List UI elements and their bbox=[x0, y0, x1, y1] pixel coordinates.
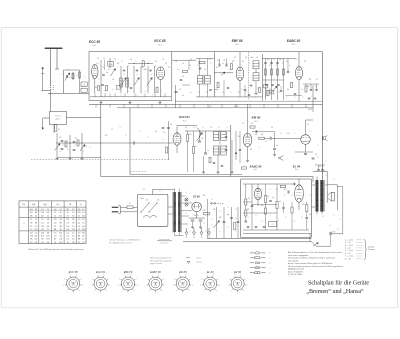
svg-text:88: 88 bbox=[78, 236, 80, 238]
svg-text:6,3: 6,3 bbox=[209, 106, 211, 108]
svg-text:240: 240 bbox=[83, 85, 86, 87]
svg-text:Werte mit * bei UKW gemessen,: Werte mit * bei UKW gemessen, ohne Sende… bbox=[28, 248, 84, 251]
svg-text:12: 12 bbox=[234, 57, 236, 59]
svg-text:8: 8 bbox=[281, 133, 282, 135]
svg-text:5 — 2 x 15: 5 — 2 x 15 bbox=[345, 250, 353, 252]
svg-text:0,3: 0,3 bbox=[54, 232, 57, 234]
svg-text:1n: 1n bbox=[63, 145, 65, 147]
svg-text:4: 4 bbox=[310, 131, 311, 133]
svg-text:2: 2 bbox=[253, 187, 254, 189]
svg-text:6,8: 6,8 bbox=[35, 239, 38, 241]
svg-text:0,1: 0,1 bbox=[58, 129, 60, 131]
svg-text:170: 170 bbox=[41, 229, 44, 231]
svg-text:215: 215 bbox=[59, 232, 62, 234]
svg-text:ECC 85: ECC 85 bbox=[89, 40, 100, 44]
svg-text:2: 2 bbox=[215, 92, 216, 94]
svg-text:EL 84: EL 84 bbox=[207, 270, 214, 274]
svg-text:8: 8 bbox=[262, 189, 263, 191]
svg-text:(A) Abgleichpunkte: (A) Abgleichpunkte bbox=[288, 268, 304, 271]
svg-text:0: 0 bbox=[160, 104, 161, 106]
svg-text:45: 45 bbox=[54, 239, 56, 241]
svg-text:9: 9 bbox=[290, 65, 291, 67]
svg-text:3: 3 bbox=[262, 221, 263, 223]
svg-text:7,5: 7,5 bbox=[72, 216, 75, 218]
svg-text:(B) 2. ZF 460 kHz: (B) 2. ZF 460 kHz bbox=[288, 271, 303, 273]
svg-text:7,5: 7,5 bbox=[66, 216, 69, 218]
svg-text:8: 8 bbox=[274, 59, 275, 61]
svg-text:8: 8 bbox=[77, 75, 78, 77]
svg-text:4: 4 bbox=[137, 74, 138, 76]
svg-text:7,5: 7,5 bbox=[66, 222, 69, 224]
svg-text:50: 50 bbox=[315, 86, 317, 88]
svg-text:1: 1 bbox=[247, 92, 248, 94]
svg-text:45: 45 bbox=[60, 212, 62, 214]
svg-text:5: 5 bbox=[340, 219, 341, 221]
svg-text:Schalterstellung: U = UKW-Betr: Schalterstellung: U = UKW-Betrieb bbox=[109, 239, 141, 242]
svg-text:2,1: 2,1 bbox=[72, 239, 75, 241]
svg-text:1,3: 1,3 bbox=[54, 236, 57, 238]
svg-text:1,3: 1,3 bbox=[54, 222, 57, 224]
svg-text:12: 12 bbox=[265, 141, 267, 143]
svg-text:5: 5 bbox=[317, 216, 318, 218]
svg-text:50: 50 bbox=[170, 124, 172, 126]
svg-text:88: 88 bbox=[78, 239, 80, 241]
svg-text:98: 98 bbox=[30, 239, 32, 241]
svg-text:12: 12 bbox=[82, 239, 84, 241]
svg-text:2,1: 2,1 bbox=[72, 209, 75, 211]
svg-text:88: 88 bbox=[60, 222, 62, 224]
svg-text:270: 270 bbox=[203, 210, 206, 212]
svg-text:12: 12 bbox=[35, 219, 37, 221]
svg-text:1n: 1n bbox=[301, 89, 303, 91]
svg-text:88: 88 bbox=[67, 209, 69, 211]
svg-text:170: 170 bbox=[302, 204, 305, 206]
svg-text:Rö 5: Rö 5 bbox=[295, 169, 298, 171]
svg-text:5: 5 bbox=[259, 147, 260, 149]
svg-text:2n: 2n bbox=[163, 132, 165, 134]
svg-text:3: 3 bbox=[228, 207, 229, 209]
svg-text:0,1: 0,1 bbox=[271, 224, 273, 226]
svg-text:215: 215 bbox=[77, 212, 80, 214]
svg-text:2: 2 bbox=[62, 74, 63, 76]
svg-text:2: 2 bbox=[278, 221, 279, 223]
svg-text:60: 60 bbox=[225, 133, 227, 135]
svg-text:6: 6 bbox=[220, 231, 221, 233]
svg-text:4: 4 bbox=[129, 91, 130, 93]
svg-text:2,1: 2,1 bbox=[41, 222, 44, 224]
svg-text:2: 2 bbox=[121, 95, 122, 97]
svg-text:5k: 5k bbox=[217, 60, 219, 62]
svg-text:88: 88 bbox=[82, 232, 84, 234]
svg-text:3: 3 bbox=[190, 231, 191, 233]
svg-text:6,8: 6,8 bbox=[30, 242, 33, 244]
svg-text:4: 4 bbox=[294, 221, 295, 223]
svg-text:4 — 22: 4 — 22 bbox=[345, 248, 351, 250]
svg-text:98: 98 bbox=[47, 232, 49, 234]
svg-text:150: 150 bbox=[203, 195, 206, 197]
svg-text:0,1: 0,1 bbox=[242, 123, 244, 125]
svg-text:4700: 4700 bbox=[332, 232, 336, 234]
svg-text:0,5: 0,5 bbox=[179, 89, 181, 91]
svg-text:1n: 1n bbox=[207, 150, 209, 152]
svg-text:2: 2 bbox=[263, 92, 264, 94]
svg-text:Rö 1: Rö 1 bbox=[93, 45, 97, 47]
svg-text:12: 12 bbox=[269, 65, 271, 67]
svg-text:7,5: 7,5 bbox=[66, 239, 69, 241]
svg-text:Rö 4: Rö 4 bbox=[292, 44, 296, 46]
svg-text:4: 4 bbox=[279, 92, 280, 94]
svg-text:7 — 2 x 12: 7 — 2 x 12 bbox=[345, 256, 353, 258]
svg-text:2: 2 bbox=[204, 223, 205, 225]
svg-text:5k: 5k bbox=[182, 63, 184, 65]
svg-text:0,1: 0,1 bbox=[279, 201, 281, 203]
svg-text:5: 5 bbox=[264, 65, 265, 67]
svg-text:170: 170 bbox=[46, 236, 49, 238]
svg-text:3: 3 bbox=[227, 127, 228, 129]
svg-text:ECC 85: ECC 85 bbox=[69, 270, 79, 274]
svg-text:2: 2 bbox=[326, 161, 327, 163]
svg-text:12: 12 bbox=[54, 242, 56, 244]
svg-text:U = 220 V~: U = 220 V~ bbox=[160, 242, 169, 244]
svg-text:170: 170 bbox=[72, 229, 75, 231]
svg-text:0,8: 0,8 bbox=[30, 212, 33, 214]
svg-text:EZ 80: EZ 80 bbox=[234, 270, 241, 274]
svg-text:2: 2 bbox=[153, 95, 154, 97]
svg-text:215: 215 bbox=[41, 212, 44, 214]
svg-text:1n: 1n bbox=[190, 92, 192, 94]
svg-text:45: 45 bbox=[67, 212, 69, 214]
svg-text:3: 3 bbox=[303, 97, 304, 99]
svg-text:Alle Widerstandswerte in Ohm,: Alle Widerstandswerte in Ohm, alle Konde… bbox=[288, 251, 342, 254]
svg-text:*1,4: *1,4 bbox=[96, 63, 99, 65]
svg-text:5: 5 bbox=[310, 195, 311, 197]
svg-text:12: 12 bbox=[60, 236, 62, 238]
svg-text:0,3: 0,3 bbox=[41, 242, 44, 244]
svg-text:0,8: 0,8 bbox=[47, 219, 50, 221]
svg-text:170: 170 bbox=[30, 236, 33, 238]
svg-text:1,3: 1,3 bbox=[35, 232, 38, 234]
svg-text:30: 30 bbox=[97, 58, 99, 60]
svg-text:12: 12 bbox=[47, 222, 49, 224]
svg-text:8: 8 bbox=[302, 217, 303, 219]
svg-text:8: 8 bbox=[113, 89, 114, 91]
svg-text:audion: audion bbox=[213, 89, 218, 91]
svg-text:4: 4 bbox=[161, 91, 162, 93]
svg-text:9: 9 bbox=[93, 79, 94, 81]
svg-text:6: 6 bbox=[334, 179, 335, 181]
svg-text:15: 15 bbox=[69, 77, 71, 79]
svg-text:30: 30 bbox=[287, 89, 289, 91]
svg-text:6,8: 6,8 bbox=[35, 236, 38, 238]
svg-text:12: 12 bbox=[78, 216, 80, 218]
svg-text:6,8: 6,8 bbox=[35, 242, 38, 244]
svg-text:2,1: 2,1 bbox=[66, 232, 69, 234]
svg-text:b: b bbox=[270, 272, 271, 274]
svg-text:Chassis: Chassis bbox=[196, 261, 202, 263]
svg-text:2: 2 bbox=[212, 225, 213, 227]
svg-text:60: 60 bbox=[225, 146, 227, 148]
svg-text:2: 2 bbox=[137, 95, 138, 97]
svg-text:30: 30 bbox=[267, 59, 269, 61]
svg-text:1: 1 bbox=[99, 79, 100, 81]
svg-text:2,1: 2,1 bbox=[72, 226, 75, 228]
svg-text:8: 8 bbox=[199, 92, 200, 94]
svg-text:2n: 2n bbox=[67, 149, 69, 151]
svg-text:1,3: 1,3 bbox=[78, 232, 81, 234]
svg-text:88: 88 bbox=[35, 222, 37, 224]
svg-text:3: 3 bbox=[282, 63, 283, 65]
svg-text:2: 2 bbox=[287, 97, 288, 99]
svg-text:0,3: 0,3 bbox=[66, 226, 69, 228]
svg-text:2,1: 2,1 bbox=[78, 242, 81, 244]
svg-text:5: 5 bbox=[229, 69, 230, 71]
svg-text:2,1: 2,1 bbox=[72, 212, 75, 214]
svg-text:50: 50 bbox=[130, 59, 132, 61]
svg-text:2,1: 2,1 bbox=[72, 236, 75, 238]
svg-text:6: 6 bbox=[219, 127, 220, 129]
svg-text:88: 88 bbox=[60, 226, 62, 228]
svg-text:6,8: 6,8 bbox=[30, 209, 33, 211]
svg-text:4: 4 bbox=[124, 74, 125, 76]
svg-text:6: 6 bbox=[212, 219, 213, 221]
svg-text:8: 8 bbox=[122, 61, 123, 63]
svg-text:3: 3 bbox=[330, 225, 331, 227]
svg-text:12: 12 bbox=[111, 129, 113, 131]
svg-text:5: 5 bbox=[105, 91, 106, 93]
svg-text:170: 170 bbox=[46, 239, 49, 241]
svg-text:25: 25 bbox=[304, 61, 306, 63]
svg-text:Gleichspannungswerte mit: Gleichspannungswerte mit bbox=[150, 257, 172, 260]
svg-text:45: 45 bbox=[35, 216, 37, 218]
svg-text:15: 15 bbox=[222, 63, 224, 65]
svg-text:12: 12 bbox=[78, 229, 80, 231]
svg-text:Rö 2: Rö 2 bbox=[183, 120, 187, 122]
svg-text:6: 6 bbox=[136, 61, 137, 63]
svg-text:100: 100 bbox=[284, 189, 287, 191]
svg-text:9: 9 bbox=[231, 92, 232, 94]
svg-text:215: 215 bbox=[59, 216, 62, 218]
svg-text:0,1: 0,1 bbox=[143, 189, 145, 191]
svg-text:0,3: 0,3 bbox=[41, 236, 44, 238]
svg-text:5: 5 bbox=[303, 67, 304, 69]
svg-text:8: 8 bbox=[285, 195, 286, 197]
svg-text:125: 125 bbox=[157, 200, 160, 202]
svg-text:12: 12 bbox=[78, 226, 80, 228]
svg-text:6,8: 6,8 bbox=[30, 232, 33, 234]
svg-text:0,5: 0,5 bbox=[248, 198, 250, 200]
svg-text:nicht anders angegeben: nicht anders angegeben bbox=[288, 254, 308, 257]
svg-text:45: 45 bbox=[82, 236, 84, 238]
svg-text:die mit * bezeichneten Werte g: die mit * bezeichneten Werte gelten für … bbox=[288, 262, 332, 265]
svg-text:8: 8 bbox=[149, 61, 150, 63]
svg-text:50: 50 bbox=[245, 57, 247, 59]
svg-text:2 — 15: 2 — 15 bbox=[345, 242, 351, 244]
svg-text:12: 12 bbox=[127, 66, 129, 68]
svg-text:3: 3 bbox=[120, 127, 121, 129]
svg-text:88: 88 bbox=[67, 219, 69, 221]
svg-text:88: 88 bbox=[35, 212, 37, 214]
svg-text:5k: 5k bbox=[238, 92, 240, 94]
svg-text:0,8: 0,8 bbox=[82, 216, 85, 218]
svg-text:6,8: 6,8 bbox=[117, 63, 119, 65]
svg-text:8: 8 bbox=[276, 65, 277, 67]
svg-text:18: 18 bbox=[175, 61, 177, 63]
svg-text:98: 98 bbox=[30, 222, 32, 224]
svg-text:5: 5 bbox=[318, 157, 319, 159]
svg-text:70: 70 bbox=[162, 59, 164, 61]
svg-text:Rö 6: Rö 6 bbox=[254, 121, 258, 123]
svg-text:12: 12 bbox=[30, 229, 32, 231]
svg-text:25: 25 bbox=[190, 59, 192, 61]
svg-text:Drehko-: Drehko- bbox=[368, 246, 375, 248]
svg-text:5k: 5k bbox=[276, 189, 278, 191]
svg-text:215: 215 bbox=[34, 229, 37, 231]
svg-text:98: 98 bbox=[35, 209, 37, 211]
svg-text:12: 12 bbox=[72, 232, 74, 234]
svg-text:12: 12 bbox=[47, 216, 49, 218]
svg-text:0,8: 0,8 bbox=[47, 212, 50, 214]
svg-text:Trimmer: Trimmer bbox=[368, 249, 375, 251]
svg-text:EABC 80: EABC 80 bbox=[287, 39, 301, 43]
svg-text:3: 3 bbox=[83, 151, 84, 153]
svg-text:4: 4 bbox=[203, 127, 204, 129]
svg-text:2: 2 bbox=[292, 195, 293, 197]
svg-text:12: 12 bbox=[103, 58, 105, 60]
svg-text:45: 45 bbox=[82, 219, 84, 221]
svg-text:7,5: 7,5 bbox=[47, 229, 50, 231]
svg-text:2,1: 2,1 bbox=[54, 216, 57, 218]
svg-text:2,1: 2,1 bbox=[59, 209, 62, 211]
svg-text:12: 12 bbox=[30, 219, 32, 221]
svg-text:50: 50 bbox=[201, 138, 203, 140]
svg-text:ECC 85: ECC 85 bbox=[154, 39, 165, 43]
svg-text:8: 8 bbox=[126, 135, 127, 137]
svg-text:EBF 89: EBF 89 bbox=[232, 39, 243, 43]
svg-text:10: 10 bbox=[197, 65, 199, 67]
svg-text:k: k bbox=[270, 258, 271, 260]
svg-text:5n: 5n bbox=[276, 145, 278, 147]
svg-text:6: 6 bbox=[286, 217, 287, 219]
svg-text:98: 98 bbox=[41, 239, 43, 241]
svg-text:2n: 2n bbox=[235, 218, 237, 220]
svg-text:8: 8 bbox=[194, 127, 195, 129]
svg-text:5p: 5p bbox=[106, 72, 108, 74]
svg-text:EABC 80: EABC 80 bbox=[150, 270, 161, 274]
svg-text:5: 5 bbox=[220, 211, 221, 213]
svg-text:2,1: 2,1 bbox=[54, 226, 57, 228]
svg-text:L: L bbox=[338, 195, 339, 197]
svg-text:50: 50 bbox=[185, 127, 187, 129]
svg-text:30: 30 bbox=[108, 69, 110, 71]
svg-text:12: 12 bbox=[82, 222, 84, 224]
svg-text:50: 50 bbox=[309, 214, 311, 216]
svg-text:0,8: 0,8 bbox=[59, 219, 62, 221]
svg-text:50: 50 bbox=[206, 92, 208, 94]
svg-text:8: 8 bbox=[338, 229, 339, 231]
svg-text:3: 3 bbox=[85, 77, 86, 79]
svg-text:0,5: 0,5 bbox=[182, 76, 184, 78]
svg-text:4: 4 bbox=[151, 74, 152, 76]
svg-text:6,8: 6,8 bbox=[47, 226, 50, 228]
svg-text:+225V: +225V bbox=[234, 106, 240, 108]
svg-text:0,1: 0,1 bbox=[195, 146, 197, 148]
svg-text:8: 8 bbox=[236, 209, 237, 211]
svg-text:8: 8 bbox=[206, 231, 207, 233]
svg-text:7,5: 7,5 bbox=[47, 209, 50, 211]
svg-text:10: 10 bbox=[165, 63, 167, 65]
svg-text:215: 215 bbox=[41, 232, 44, 234]
svg-text:EABC 80: EABC 80 bbox=[250, 164, 262, 168]
svg-text:EM 80: EM 80 bbox=[179, 270, 187, 274]
svg-text:40: 40 bbox=[204, 69, 206, 71]
svg-text:8: 8 bbox=[316, 171, 317, 173]
svg-text:2: 2 bbox=[171, 135, 172, 137]
svg-text:4: 4 bbox=[145, 91, 146, 93]
svg-text:88: 88 bbox=[54, 229, 56, 231]
svg-text:Rö 4: Rö 4 bbox=[254, 169, 257, 171]
svg-text:2: 2 bbox=[140, 131, 141, 133]
svg-text:30: 30 bbox=[182, 95, 184, 97]
svg-text:8: 8 bbox=[211, 63, 212, 65]
svg-text:98: 98 bbox=[72, 222, 74, 224]
svg-text:2n: 2n bbox=[189, 65, 191, 67]
svg-text:12: 12 bbox=[222, 92, 224, 94]
svg-text:30: 30 bbox=[168, 67, 170, 69]
svg-text:2,1: 2,1 bbox=[66, 236, 69, 238]
svg-text:45: 45 bbox=[60, 229, 62, 231]
svg-text:EZ 80: EZ 80 bbox=[193, 196, 200, 199]
svg-text:0,8: 0,8 bbox=[54, 209, 57, 211]
svg-text:40: 40 bbox=[155, 131, 157, 133]
svg-text:170: 170 bbox=[82, 229, 85, 231]
svg-text:g: g bbox=[270, 263, 271, 265]
svg-text:5: 5 bbox=[60, 151, 61, 153]
svg-text:0,8: 0,8 bbox=[59, 239, 62, 241]
svg-text:(C) ZF 10,7 MHz: (C) ZF 10,7 MHz bbox=[288, 274, 302, 276]
svg-text:2,1: 2,1 bbox=[54, 212, 57, 214]
svg-text:25: 25 bbox=[319, 166, 321, 168]
svg-text:12: 12 bbox=[295, 59, 297, 61]
svg-text:3: 3 bbox=[270, 189, 271, 191]
svg-text:12: 12 bbox=[82, 209, 84, 211]
svg-text:4: 4 bbox=[228, 227, 229, 229]
svg-text:EM 80: EM 80 bbox=[252, 116, 261, 120]
svg-text:68k: 68k bbox=[144, 69, 147, 71]
svg-text:Bereich: Bereich bbox=[55, 116, 61, 118]
svg-text:20: 20 bbox=[210, 127, 212, 129]
svg-text:2: 2 bbox=[160, 191, 161, 193]
svg-text:6: 6 bbox=[186, 192, 187, 194]
svg-text:250: 250 bbox=[105, 135, 108, 137]
svg-text:M = AM-Betrieb (L, M, K): M = AM-Betrieb (L, M, K) bbox=[109, 241, 131, 244]
svg-text:6: 6 bbox=[90, 147, 91, 149]
svg-text:215: 215 bbox=[53, 219, 56, 221]
svg-text:6,8: 6,8 bbox=[78, 209, 81, 211]
svg-text:alle Spannungen gemessen mit I: alle Spannungen gemessen mit Instrument … bbox=[288, 265, 343, 268]
svg-text:9: 9 bbox=[75, 145, 76, 147]
svg-text:Netz: Netz bbox=[140, 197, 144, 200]
svg-text:6: 6 bbox=[148, 137, 149, 139]
svg-text:0,5: 0,5 bbox=[251, 123, 253, 125]
svg-text:a: a bbox=[68, 69, 69, 71]
svg-text:12: 12 bbox=[154, 66, 156, 68]
svg-text:4: 4 bbox=[326, 175, 327, 177]
svg-text:30: 30 bbox=[75, 138, 77, 140]
svg-text:EBF 89: EBF 89 bbox=[124, 270, 133, 274]
svg-text:7,5: 7,5 bbox=[35, 226, 38, 228]
svg-text:2: 2 bbox=[250, 63, 251, 65]
svg-text:5k: 5k bbox=[272, 197, 274, 199]
